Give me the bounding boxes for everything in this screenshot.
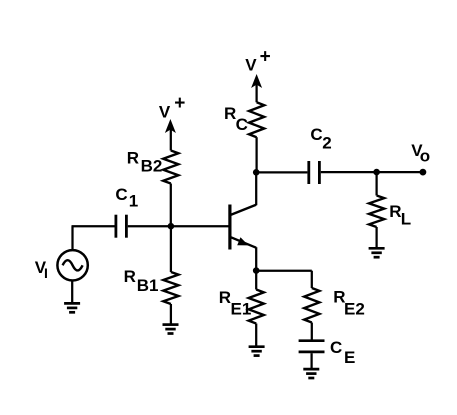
svg-text:E: E xyxy=(344,348,355,367)
power arrow V+ (RB2) xyxy=(159,93,185,133)
node emitter xyxy=(253,267,260,274)
label C1 xyxy=(115,185,138,211)
resistor RC xyxy=(249,83,264,172)
label RB1 xyxy=(124,267,159,295)
node collector xyxy=(253,169,260,176)
svg-text:o: o xyxy=(420,147,430,166)
label RL xyxy=(389,202,411,229)
label RE2 xyxy=(333,288,365,319)
wire emitter horizontal xyxy=(256,270,312,272)
svg-text:R: R xyxy=(219,288,231,307)
svg-text:C: C xyxy=(236,115,248,134)
node Vo terminal xyxy=(420,169,427,176)
transistor Q1 xyxy=(230,205,256,250)
wire VI bottom xyxy=(71,281,73,304)
wire collector to C2 xyxy=(256,171,307,173)
wire C2 to output xyxy=(321,171,423,173)
label C2 xyxy=(310,125,331,153)
resistor RB1 xyxy=(163,226,178,324)
svg-text:2: 2 xyxy=(322,134,331,153)
svg-text:I: I xyxy=(44,265,48,281)
capacitor C1 xyxy=(116,215,127,238)
svg-text:C: C xyxy=(310,125,322,144)
svg-text:R: R xyxy=(124,267,136,286)
svg-text:R: R xyxy=(389,202,401,221)
ground RB1 xyxy=(163,325,179,334)
svg-text:1: 1 xyxy=(129,192,138,211)
node base junction xyxy=(168,223,175,230)
resistor RE2 xyxy=(304,271,319,340)
svg-text:E1: E1 xyxy=(231,300,252,319)
svg-text:E2: E2 xyxy=(344,300,365,319)
wire C1 to base xyxy=(128,225,229,227)
ground RE1 xyxy=(249,347,265,356)
svg-text:V: V xyxy=(159,103,171,122)
label RC xyxy=(224,104,248,134)
label RE1 xyxy=(219,288,252,318)
ground CE xyxy=(303,369,319,378)
svg-text:+: + xyxy=(174,93,185,114)
capacitor C2 xyxy=(309,161,320,184)
svg-text:+: + xyxy=(260,47,271,68)
label VI xyxy=(35,258,48,281)
node RL junction xyxy=(373,169,380,176)
ground VI xyxy=(64,303,80,312)
svg-text:V: V xyxy=(245,56,257,75)
svg-text:C: C xyxy=(330,338,342,357)
svg-text:R: R xyxy=(127,149,139,168)
source VI xyxy=(57,250,87,280)
wire collector vertical xyxy=(255,172,257,205)
svg-text:L: L xyxy=(401,210,411,229)
svg-text:B2: B2 xyxy=(141,157,163,176)
label Vo xyxy=(411,141,430,166)
resistor RL xyxy=(369,172,384,248)
wire input horizontal xyxy=(72,225,115,227)
wire emitter vertical xyxy=(255,247,257,270)
capacitor CE xyxy=(299,341,325,368)
resistor RB2 xyxy=(163,128,178,226)
resistor RE1 xyxy=(249,271,264,346)
wire VI top xyxy=(71,226,73,250)
label CE xyxy=(330,338,355,367)
svg-text:B1: B1 xyxy=(137,276,159,295)
svg-text:R: R xyxy=(224,104,236,123)
power arrow V+ (RC) xyxy=(245,47,270,88)
label RB2 xyxy=(127,149,163,176)
svg-text:C: C xyxy=(115,185,127,204)
ground RL xyxy=(369,248,385,257)
